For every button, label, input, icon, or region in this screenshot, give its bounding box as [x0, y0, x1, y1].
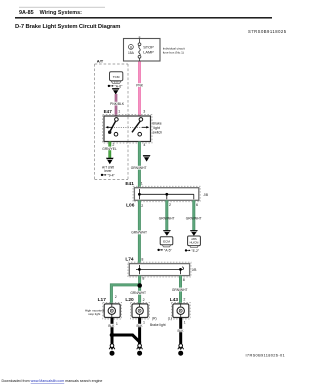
svg-text:GRN/WHT: GRN/WHT: [159, 217, 175, 221]
svg-text:L17: L17: [98, 297, 107, 303]
E47 brake light switch box: [104, 116, 151, 142]
svg-text:(L): (L): [168, 316, 172, 320]
fuse box rectangle: [124, 39, 161, 62]
svg-text:Brake light: Brake light: [150, 323, 166, 327]
switch S1 left: [105, 118, 118, 136]
svg-text:GRN/WHT: GRN/WHT: [130, 291, 146, 295]
svg-text:4: 4: [143, 143, 145, 147]
svg-text:BLK: BLK: [177, 329, 184, 333]
svg-text:"A-5": "A-5": [164, 248, 172, 252]
label GRN/YEL: [103, 147, 117, 151]
lamp L20 hatch: [131, 302, 150, 319]
svg-text:9A-85 Wiring Systems:: 9A-85 Wiring Systems:: [19, 10, 82, 16]
power feed stub above fuse box: [139, 36, 141, 38]
svg-text:14: 14: [138, 351, 142, 355]
label GRN/WHT: [131, 291, 145, 295]
svg-text:PNK: PNK: [136, 84, 144, 88]
internal bus E41: [139, 189, 193, 199]
lamp bulb L20: [136, 307, 143, 314]
svg-text:1: 1: [118, 110, 120, 114]
svg-text:A/T: A/T: [97, 58, 104, 63]
svg-text:L06: L06: [126, 203, 135, 209]
lamp bulb L43: [177, 307, 184, 314]
svg-text:17: 17: [179, 351, 183, 355]
svg-text:1: 1: [184, 320, 186, 324]
wire BLK L17 to ground: [111, 318, 114, 344]
label GRN/WHT: [132, 166, 146, 170]
E41/L06 J/B box: [134, 188, 198, 201]
svg-text:8: 8: [142, 277, 144, 281]
svg-text:GRN/WHT: GRN/WHT: [131, 166, 147, 170]
reference A-5: [157, 248, 172, 252]
svg-text:GRN/YEL: GRN/YEL: [102, 147, 117, 151]
header thin rule: [19, 6, 105, 8]
lamp L17 box: [104, 304, 120, 318]
wire GRN/WHT L06 to ABS: [192, 200, 195, 230]
svg-text:"E-2": "E-2": [191, 249, 199, 253]
label PNK/BLK: [110, 102, 123, 106]
wire BLK L20 to ground: [138, 318, 141, 344]
svg-text:S7RS0B9118025: S7RS0B9118025: [248, 29, 287, 34]
ground symbol E17: [178, 344, 184, 356]
reference 9-4: [101, 173, 116, 177]
svg-text:PNK/BLK: PNK/BLK: [110, 102, 125, 106]
wire GRN/WHT L06 to L74: [138, 200, 141, 263]
label GRN/WHT: [132, 231, 146, 235]
E47 connector hatch: [103, 114, 152, 143]
wire GRN/WHT L74 to L43: [179, 276, 182, 304]
svg-text:2: 2: [169, 203, 171, 207]
label BLK: [136, 324, 144, 327]
svg-text:"A-6": "A-6": [115, 84, 123, 88]
svg-text:ABS: ABS: [191, 237, 197, 241]
label GRN/WHT: [173, 288, 187, 292]
svg-text:BLK: BLK: [108, 324, 115, 328]
ground symbol E15: [109, 344, 115, 356]
lamp bulb L17: [108, 307, 115, 314]
svg-text:J/B: J/B: [203, 193, 208, 197]
svg-text:I7RS0B9118026-01: I7RS0B9118026-01: [246, 353, 286, 358]
lamp L20 box: [132, 304, 148, 318]
fuse symbol: [138, 39, 141, 62]
junction dot: [110, 333, 115, 338]
A/T dashed enclosure: [95, 64, 128, 180]
svg-text:switch: switch: [153, 130, 163, 134]
svg-text:15: 15: [110, 351, 114, 355]
wire GRN/WHT L74 to junction: [138, 276, 141, 304]
lamp L17 hatch: [103, 302, 122, 319]
svg-text:1: 1: [116, 322, 118, 326]
E41/L06 J/B box hatch: [133, 186, 200, 201]
ground link wire: [112, 335, 140, 344]
lamp L43 box: [173, 304, 189, 318]
svg-text:6: 6: [196, 203, 198, 207]
svg-text:L20: L20: [125, 297, 134, 303]
svg-text:GRN/WHT: GRN/WHT: [172, 288, 188, 292]
svg-text:light: light: [154, 126, 160, 130]
svg-text:LAMP: LAMP: [143, 49, 154, 54]
svg-text:2: 2: [115, 295, 117, 299]
svg-text:2: 2: [183, 298, 185, 302]
L74 J/B box hatch: [128, 262, 191, 277]
svg-text:GRN/WHT: GRN/WHT: [131, 231, 147, 235]
svg-text:"9-4": "9-4": [107, 173, 115, 177]
L74 J/B box: [129, 264, 189, 276]
svg-text:2: 2: [141, 204, 143, 208]
svg-text:Downloaded from www.Manualslib: Downloaded from www.Manualslib.com manua…: [2, 379, 103, 383]
svg-text:BLK: BLK: [136, 324, 143, 328]
wire PNK fuse to E47 pin3: [138, 61, 141, 116]
label BLK: [177, 329, 185, 332]
wire PNK/BLK TCM to E47 pin1: [115, 94, 118, 116]
reference A-6: [108, 84, 123, 88]
svg-text:E41: E41: [125, 181, 134, 187]
fuse F8 circled number: [129, 45, 134, 50]
connector triangle marker: [143, 155, 151, 162]
wire BLK L43 to ground: [179, 318, 182, 344]
label PNK: [136, 83, 144, 87]
svg-text:(R): (R): [152, 316, 157, 320]
reference E-2: [185, 249, 200, 253]
ground symbol E14: [137, 344, 143, 356]
lamp L43 hatch: [171, 302, 190, 319]
junction dots: [138, 193, 141, 196]
svg-text:1: 1: [141, 182, 143, 186]
svg-text:8: 8: [141, 258, 143, 262]
wire GRN/YEL E47 pin2: [108, 142, 111, 159]
svg-text:2: 2: [143, 298, 145, 302]
ABS HU/CM box: [188, 236, 201, 246]
svg-text:TCM: TCM: [113, 75, 120, 79]
svg-text:8: 8: [130, 45, 132, 49]
svg-text:GRN/WHT: GRN/WHT: [186, 217, 202, 221]
junction dot: [137, 283, 142, 288]
svg-text:Brake: Brake: [153, 121, 162, 125]
junction dots: [138, 268, 141, 271]
svg-text:D-7 Brake Light System Circuit: D-7 Brake Light System Circuit Diagram: [15, 24, 120, 30]
wire GRN/WHT L06 to ECM: [165, 200, 168, 230]
svg-text:15A: 15A: [128, 51, 135, 55]
ECM box: [160, 237, 173, 245]
svg-text:ECM: ECM: [163, 239, 170, 243]
svg-text:L43: L43: [170, 297, 179, 303]
TCM box: [110, 72, 123, 81]
connector triangle to TCM: [112, 88, 120, 95]
svg-text:3: 3: [143, 110, 145, 114]
wire GRN/WHT E47 pin4 to E41: [138, 142, 141, 189]
svg-text:stop light: stop light: [88, 312, 100, 316]
svg-text:E47: E47: [104, 109, 113, 114]
svg-text:HU/CM: HU/CM: [190, 240, 200, 244]
connector arrow to ABS: [190, 230, 198, 236]
svg-text:fuse box (No.1): fuse box (No.1): [163, 51, 184, 55]
switch S2 right: [132, 118, 149, 136]
wire branch to L17: [111, 285, 139, 304]
svg-text:L74: L74: [125, 257, 134, 263]
svg-text:8: 8: [183, 278, 185, 282]
A/T boundary dashed through E47: [127, 117, 129, 141]
internal bus L74: [136, 265, 183, 274]
TCM connector tab: [111, 81, 121, 83]
header thick rule: [15, 17, 272, 19]
connector arrow to ECM: [163, 230, 171, 236]
connector triangle A/T shift lever: [106, 158, 114, 165]
switch link dashed line: [107, 126, 148, 128]
label BLK: [108, 324, 116, 327]
svg-text:J/B: J/B: [192, 268, 197, 272]
